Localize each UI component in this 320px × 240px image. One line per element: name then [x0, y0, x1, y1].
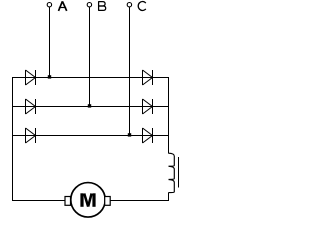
motor M1 body	[71, 183, 106, 218]
inductor L1 core	[178, 157, 180, 188]
wire row 3 horizontal	[12, 135, 169, 137]
wire phase C vertical	[129, 7, 131, 136]
wire phase B vertical	[89, 7, 91, 107]
terminal B	[87, 2, 91, 6]
inductor L1 coil	[169, 153, 175, 192]
node label B	[98, 2, 106, 11]
diode D2 row2 left	[26, 99, 36, 114]
wire row 1 horizontal	[12, 77, 169, 79]
wire right bus vertical	[168, 77, 170, 153]
motor M1 right brush	[105, 197, 111, 206]
wire phase A vertical	[49, 7, 51, 78]
diode D5 row2 right	[143, 99, 153, 114]
junction node C row3	[128, 133, 131, 136]
diode D6 row3 right	[143, 128, 153, 143]
wire bottom left segment	[12, 200, 65, 202]
node label A	[59, 1, 67, 11]
wire left bus vertical	[12, 77, 14, 201]
junction node B row2	[88, 104, 91, 107]
wire bottom right segment	[110, 200, 169, 202]
diode D4 row1 right	[143, 70, 153, 85]
diode D3 row3 left	[26, 128, 36, 143]
motor M1 left brush	[65, 197, 71, 206]
terminal C	[127, 2, 131, 6]
motor M1 label	[82, 193, 94, 207]
wire row 2 horizontal	[12, 106, 169, 108]
terminal A	[47, 2, 51, 6]
junction node A row1	[48, 75, 51, 78]
node label C	[138, 1, 146, 10]
wire inductor bottom lead	[168, 193, 170, 202]
diode D1 row1 left	[26, 70, 36, 85]
